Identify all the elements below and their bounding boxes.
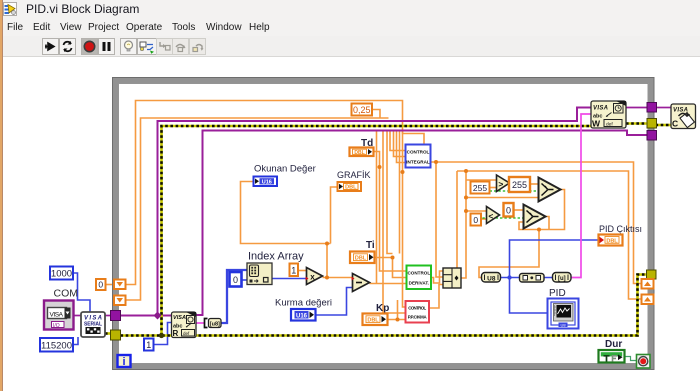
left window edge strip (0, 0, 2, 391)
svg-text:GRAFİK: GRAFİK (337, 170, 371, 180)
svg-text:Okunan Değer: Okunan Değer (254, 164, 316, 175)
svg-text:255: 255 (512, 180, 527, 190)
svg-text:COM: COM (54, 288, 79, 300)
svg-text:CONTROL: CONTROL (408, 306, 426, 311)
subVI Control P.P.Cikma (406, 301, 430, 323)
toolbar button step out disabled (189, 38, 206, 55)
wire: bundle vertical to Control P.P.Cikma input 1 (403, 131, 407, 307)
toolbar button step over disabled (172, 38, 189, 55)
wire: compound arithmetic output riser (461, 171, 466, 278)
Index Array node (247, 263, 272, 285)
wire: multiply output to subtract input (323, 277, 353, 279)
junction dot: compare tap 2 (464, 209, 468, 213)
svg-text:DBL: DBL (355, 256, 367, 262)
wire: error tunnel to VISA Close (656, 124, 672, 127)
svg-text:CONTROL: CONTROL (407, 150, 430, 155)
control Kp DBL (363, 314, 388, 326)
svg-text:PID: PID (549, 288, 566, 299)
wire: VISA resource COM control to serial configure (73, 315, 81, 317)
svg-text:U16: U16 (262, 180, 272, 186)
constant 115200 (40, 338, 73, 352)
select node 1 (539, 178, 561, 202)
tunnel: right olive bottom error tunnel (647, 270, 657, 279)
iteration terminal i (118, 355, 131, 368)
wire: bundle vertical to Control P.P.Cikma input 2 (383, 131, 406, 313)
tunnel: right olive error tunnel (647, 119, 657, 129)
window title bar (0, 0, 700, 18)
svg-text:115200: 115200 (41, 340, 72, 351)
select node 2 (524, 205, 546, 229)
tunnel: right purple band tunnel (647, 131, 657, 141)
control Td DBL (350, 148, 374, 157)
svg-text:[u8]: [u8] (210, 322, 220, 328)
LabVIEW application icon (3, 2, 17, 16)
wire: U8 output to build array and branches (501, 277, 553, 279)
wire: bundle stubs into Control Integral inputs (390, 131, 406, 163)
greater-than node (497, 175, 510, 192)
svg-text:U16: U16 (296, 313, 308, 319)
indicator Okunan Deger U16 (254, 177, 278, 187)
wire: left shift register 1 up and across top to Control Integral (126, 101, 425, 285)
VISA Close node (671, 104, 696, 129)
tunnel: left olive error tunnel (111, 330, 121, 340)
wire: 0 constant to left shift register (106, 284, 115, 286)
svg-text:PID Çıktısı: PID Çıktısı (599, 224, 642, 234)
VISA Write node (591, 101, 626, 129)
junction dot: bundle row 172 (401, 170, 405, 174)
wire: type cast string up to VISA Write buffer (571, 114, 591, 278)
toolbar button run continuously (59, 38, 76, 55)
svg-text:DBL: DBL (606, 238, 618, 244)
svg-text:Index Array: Index Array (248, 251, 304, 263)
svg-text:0: 0 (98, 280, 103, 290)
svg-text:<: < (488, 211, 493, 221)
wire: VISA Read VISA out along band to right tunnel (196, 131, 648, 316)
svg-text:CONTROL: CONTROL (407, 271, 430, 276)
toolbar button pause (98, 38, 115, 55)
svg-text:U8: U8 (560, 322, 566, 327)
svg-text:W: W (592, 119, 601, 129)
wire: taps to comparison nodes (466, 180, 539, 211)
junction dot: multiply net at 327,243 (325, 242, 329, 246)
wire: compound output feedback across to right shift register 2 (457, 171, 642, 299)
svg-text:VISA: VISA (84, 316, 102, 322)
wire: left shift register 2 up and across to parameter bundle (126, 118, 389, 300)
VISA Read node (172, 312, 197, 338)
string to byte array node (205, 319, 222, 328)
wire: 255 upper limit constant to select 1 (530, 183, 539, 185)
while loop border (113, 78, 655, 370)
wire: Control Integral output across to right shift register 1 (431, 162, 642, 284)
wire: 1 constant to multiply (298, 270, 307, 272)
constant 1 orange (290, 264, 299, 277)
wire: 255 constant to greater node (490, 187, 497, 189)
tunnel: left purple VISA tunnel (111, 311, 121, 321)
wire: Index Array element to multiply (272, 278, 307, 280)
control Kurma degeri U16 (291, 309, 316, 321)
svg-text:0: 0 (473, 215, 478, 225)
svg-text:I/O: I/O (53, 323, 60, 329)
wire: error cluster serial configure to left olive tunnel (105, 332, 112, 335)
wire: branch down to PID waveform chart (510, 278, 548, 314)
junction dot: select output descend (537, 228, 541, 232)
waveform chart terminal PID (548, 299, 579, 329)
junction dot: integral output (434, 160, 438, 164)
svg-text:1000: 1000 (51, 269, 72, 280)
svg-text:def: def (606, 121, 613, 127)
svg-text:1: 1 (291, 265, 296, 275)
svg-text:DERIVAT.: DERIVAT. (409, 281, 429, 286)
build array node (520, 274, 545, 283)
svg-text:VISA: VISA (593, 106, 608, 112)
toolbar button retain wire values (137, 38, 157, 55)
wire: Control P.P.Cikma output wrap to compound input 3 (429, 285, 443, 309)
junction dot: Ti row (391, 256, 395, 260)
svg-text:VISA: VISA (673, 108, 688, 114)
constant 255 second (509, 177, 530, 192)
wire: boolean less result to select 2 (478, 217, 524, 219)
svg-text:Td: Td (361, 138, 373, 149)
wire: serial configure VISA out to left tunnel (105, 315, 112, 317)
wire: VISA Write VISA out to right tunnel (626, 107, 648, 109)
wire: byte array from string-to-byte-array to Index Array (221, 270, 248, 323)
junction dot: blue U8 branch (507, 275, 511, 279)
junction dot: multiply output at 327,277 (325, 276, 329, 280)
svg-text:SERIAL: SERIAL (84, 322, 102, 328)
svg-text:1: 1 (146, 340, 151, 350)
indicator GRAFIK DBL (338, 182, 362, 191)
svg-text:0: 0 (506, 205, 511, 215)
wire: bundle vertical extra (376, 131, 378, 284)
svg-text:255: 255 (473, 183, 487, 193)
shift register: right up arrow 2 (642, 295, 654, 305)
svg-text:VISA: VISA (50, 311, 64, 318)
junction dot: purple riser (154, 312, 162, 320)
shift register: right up arrow 1 (642, 279, 654, 289)
VISA Configure Serial Port node (81, 312, 105, 337)
compound arithmetic node (443, 268, 461, 288)
VISA resource control COM (44, 301, 74, 330)
control Ti DBL (350, 252, 375, 264)
menu bar (0, 18, 700, 36)
wire: branch up to PID Cikti indicator (510, 240, 599, 278)
wire: 1 constant to VISA Read byte count (153, 323, 172, 345)
svg-text:DBL: DBL (367, 318, 379, 324)
wire: 1000 constant to VISA serial timeout (73, 273, 90, 312)
wire: select 2 output join (546, 217, 550, 230)
less-than node (487, 207, 500, 224)
svg-text:VISA: VISA (173, 315, 186, 321)
wire: error VISA Write to right olive tunnel (626, 122, 648, 125)
tunnel: right purple VISA out tunnel (647, 103, 657, 113)
constant 1 blue (144, 339, 154, 351)
multiply node (306, 268, 323, 285)
wire: Td control into bundle down to Control Derivat input 1 (374, 152, 408, 272)
wire: saturated output down to U8 conversion (479, 230, 539, 278)
wire: VISA Read buffer string to byte array converter (196, 322, 204, 324)
subtract node (352, 274, 370, 292)
svg-text:INTEGRAL: INTEGRAL (406, 160, 430, 165)
svg-text:0,25: 0,25 (353, 105, 371, 115)
svg-text:U8: U8 (487, 275, 496, 282)
boolean control Dur TF (599, 350, 625, 363)
wire: error riser and band run to VISA Write (162, 126, 592, 336)
junction dot: feedback riser top (464, 169, 468, 173)
wire: Kp control to Control P.P.Cikma (388, 300, 407, 320)
constant 0,25 (352, 104, 373, 116)
subVI Control Integral (406, 145, 431, 168)
wire: subtract output to Control Derivat input 3 (370, 283, 408, 285)
indicator PID Cikti DBL (599, 235, 623, 246)
junction dot: bundle row 167 (378, 165, 382, 169)
wire: Kurma degeri control to subtract (316, 288, 353, 316)
toolbar button step into disabled (156, 38, 173, 55)
shift register: left down arrow 1 (114, 280, 126, 290)
toolbar button run (42, 38, 59, 55)
wire: Ti control to Control Derivat input 2 (375, 258, 408, 278)
constant 0 orange outside loop (96, 279, 106, 290)
junction dot: error riser (159, 333, 164, 338)
wire: bundle vertical extra 2 (399, 131, 401, 254)
svg-text:C: C (672, 119, 678, 129)
wire: 0,25 constant drop to bundle (372, 110, 380, 119)
shift register: left down arrow 2 (114, 296, 126, 306)
svg-text:abc: abc (593, 114, 602, 120)
svg-text:R: R (173, 329, 179, 338)
svg-text:>: > (498, 179, 503, 189)
wire: 115200 constant to VISA serial baud (73, 337, 78, 345)
byte array to string cast node (553, 273, 572, 283)
junction dot: compare tap 1 (464, 196, 468, 200)
constant 1000 (50, 267, 73, 280)
wire: 0 constant to less node (481, 218, 487, 220)
svg-text:Kurma değeri: Kurma değeri (275, 298, 332, 309)
svg-text:x: x (310, 273, 315, 282)
svg-text:Dur: Dur (605, 339, 622, 350)
subVI Control Derivat (407, 266, 432, 290)
wire: tunnel to VISA Close (656, 107, 672, 109)
svg-text:[u]: [u] (558, 276, 566, 282)
toolbar button highlight execution (120, 38, 137, 55)
svg-text:def: def (183, 331, 190, 336)
wire: multiply output net to Okunan Deger and Grafik indicators (241, 182, 338, 278)
wire: 0 lower limit constant to select 2 (514, 209, 524, 211)
toolbar (0, 36, 700, 57)
svg-text:Ti: Ti (366, 240, 375, 251)
svg-text:DBL: DBL (354, 150, 364, 156)
wire: select 1 output loop to select 2 input (519, 190, 565, 230)
wire: error cluster bottom run (121, 275, 648, 336)
wire: Control Integral branch down to compound arithmetic input (436, 162, 443, 277)
junction dot: Kp row (396, 318, 400, 322)
svg-text:0: 0 (233, 275, 238, 285)
constant 0 blue index (230, 272, 242, 287)
toolbar button abort (81, 38, 98, 55)
svg-text:Kp: Kp (376, 303, 389, 314)
wire: Dur boolean to loop condition terminal (625, 357, 637, 361)
wire: Control Derivat output hook to compound input 1 (431, 271, 443, 283)
svg-text:P.P.CIKMA: P.P.CIKMA (408, 315, 428, 320)
U8 conversion node (482, 273, 501, 283)
constant 255 first (471, 182, 490, 194)
wire: left purple tunnel to VISA Read with riser to top band (121, 108, 592, 316)
svg-text:i: i (122, 356, 125, 368)
constant 0 small (471, 214, 482, 226)
svg-text:abc: abc (173, 324, 182, 330)
constant 0 select2 limit (504, 203, 514, 217)
loop condition terminal (637, 355, 651, 369)
wire: 0 index constant to Index Array (242, 279, 248, 281)
svg-text:DBL: DBL (345, 185, 357, 191)
wire: boolean greater result to select 1 (472, 190, 539, 192)
